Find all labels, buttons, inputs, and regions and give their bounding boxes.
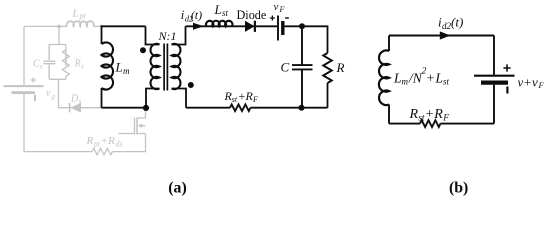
wire snubber box top	[49, 44, 66, 46]
wire snubber box bottom	[49, 79, 66, 107]
svg-text:+: +	[239, 89, 246, 103]
wire (b) bottom left	[389, 123, 420, 125]
capacitor C	[292, 26, 313, 107]
svg-text:+: +	[426, 107, 434, 122]
inductor L_m	[102, 42, 114, 89]
current arrow i_d2(t) (b)	[440, 31, 451, 39]
svg-text:(t): (t)	[451, 15, 463, 30]
svg-text:st: st	[443, 77, 450, 87]
wire grey left side down	[23, 26, 25, 84]
transistor Q1 MOSFET	[137, 109, 146, 119]
svg-text:s: s	[81, 61, 84, 70]
svg-text:pt: pt	[93, 140, 101, 149]
svg-text:(b): (b)	[449, 179, 468, 196]
svg-text:ds: ds	[116, 140, 123, 149]
svg-text:+: +	[524, 74, 531, 89]
resistor R_pt+R_ds	[92, 148, 113, 154]
svg-text:L: L	[435, 70, 444, 85]
current arrow i_d2(t)	[193, 23, 204, 30]
svg-text:g: g	[51, 91, 55, 100]
wire (b) right top	[493, 36, 495, 75]
svg-text:Diode: Diode	[237, 8, 267, 22]
wire below R	[327, 83, 329, 108]
svg-text:v: v	[274, 1, 279, 13]
resistor R_st+R_F (a)	[230, 104, 251, 111]
wire primary bottom lead	[146, 89, 160, 108]
wire (a) right side	[285, 26, 328, 53]
wire grey after L_pt	[94, 25, 102, 27]
svg-text:v: v	[46, 88, 51, 99]
svg-text:N:1: N:1	[158, 29, 177, 43]
wire (b) right bottom	[493, 85, 495, 124]
svg-text:L: L	[72, 7, 79, 19]
resistor R_st+R_F (b)	[420, 120, 441, 127]
svg-text:(a): (a)	[168, 179, 186, 196]
resistor R_s	[63, 45, 70, 80]
wire (a) bottom to node	[102, 107, 147, 109]
voltage source v+v_F	[474, 75, 515, 77]
svg-text:R: R	[107, 135, 115, 147]
inductor L_pt	[67, 21, 94, 26]
wire grey bottom right	[113, 134, 146, 152]
wire (b) bottom right	[441, 123, 495, 125]
transformer secondary winding	[172, 44, 181, 89]
svg-text:st: st	[418, 114, 425, 124]
wire secondary bottom lead	[172, 89, 187, 108]
wire secondary top lead	[172, 26, 186, 44]
polarity dot primary	[140, 47, 146, 53]
svg-text:+: +	[101, 135, 107, 147]
voltage source v_g	[4, 85, 44, 87]
polarity dot secondary	[188, 82, 194, 88]
voltage source v_F	[277, 16, 279, 41]
wire diode D_s branch	[59, 107, 102, 109]
wire (a) top left loop	[102, 25, 146, 27]
node grey top junction	[57, 25, 61, 29]
svg-text:L: L	[214, 2, 222, 17]
wire primary top lead	[146, 26, 160, 44]
svg-text:/N: /N	[408, 70, 423, 85]
svg-text:s: s	[40, 61, 43, 70]
svg-text:m: m	[402, 77, 409, 87]
svg-text:v: v	[532, 74, 538, 89]
resistor R	[323, 53, 332, 83]
wire (a) left bottom	[101, 88, 103, 108]
svg-text:m: m	[123, 66, 130, 76]
diode D_s	[70, 103, 81, 113]
wire (b) left top	[388, 36, 390, 52]
inductor Lm/N2+Lst	[379, 50, 389, 105]
svg-text:F: F	[252, 95, 258, 104]
wire (a) output top	[186, 25, 278, 27]
svg-text:R: R	[409, 107, 419, 122]
diode D1	[245, 21, 255, 32]
wire (a) bottom right	[251, 107, 328, 109]
svg-text:(t): (t)	[191, 8, 202, 22]
svg-text:F: F	[442, 114, 449, 124]
svg-text:L: L	[393, 70, 402, 85]
svg-text:R: R	[86, 135, 94, 147]
node at transformer primary bottom	[143, 105, 149, 111]
svg-text:R: R	[433, 107, 443, 122]
wire (a) left top	[101, 25, 103, 44]
svg-text:R: R	[74, 58, 81, 69]
wire (b) top	[389, 35, 494, 37]
svg-text:v: v	[518, 74, 524, 89]
wire grey input top-left	[24, 25, 67, 27]
inductor L_st	[206, 21, 232, 27]
wire (b) left bottom	[388, 105, 390, 124]
svg-text:F: F	[279, 5, 285, 14]
node (a) output top	[299, 23, 305, 29]
svg-text:L: L	[115, 59, 123, 74]
wire (a) output bottom	[186, 107, 230, 109]
svg-text:F: F	[538, 80, 545, 90]
node grey at black corner	[100, 25, 104, 29]
transformer primary winding	[151, 44, 160, 89]
wire grey below source	[24, 94, 92, 152]
svg-text:R: R	[336, 60, 345, 75]
svg-text:st: st	[222, 8, 229, 18]
svg-text:pt: pt	[79, 12, 87, 21]
wire snubber top lead	[58, 26, 60, 44]
transformer core	[164, 44, 167, 91]
capacitor C_s	[43, 45, 55, 80]
svg-text:+: +	[427, 70, 435, 85]
node (a) output bottom	[299, 105, 305, 111]
svg-text:st: st	[232, 95, 238, 104]
svg-text:s: s	[79, 96, 82, 105]
svg-text:C: C	[281, 60, 290, 75]
